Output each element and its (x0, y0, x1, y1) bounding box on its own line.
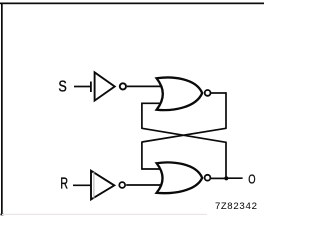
svg-text:7Z82342: 7Z82342 (215, 201, 258, 212)
svg-text:O: O (248, 171, 255, 186)
svg-text:S: S (58, 78, 66, 95)
svg-text:R: R (60, 176, 68, 193)
